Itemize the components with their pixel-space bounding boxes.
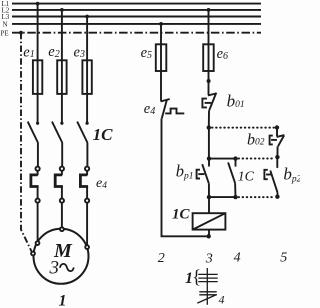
node bp2 bottom xyxy=(275,195,279,199)
fuse e6 xyxy=(203,44,214,71)
svg-text:e4: e4 xyxy=(96,176,107,191)
thermal overload e4 heater phase B xyxy=(55,171,64,203)
pushbutton b02 (NC stop, remote) xyxy=(270,128,285,158)
remote wiring dotted link bottom xyxy=(239,196,275,198)
svg-text:{: { xyxy=(192,267,201,288)
wire phase C to motor xyxy=(86,203,88,246)
thermal contact e4 (NC) xyxy=(161,99,185,118)
fuse e3 xyxy=(82,60,91,94)
contactor 1C main contact pole C xyxy=(77,122,89,171)
svg-text:e4: e4 xyxy=(144,101,155,117)
wire control branch from L2 to fuse e6 xyxy=(207,8,211,12)
wire control branch from N to fuse e5 xyxy=(159,22,163,26)
svg-text:e5: e5 xyxy=(141,45,152,61)
svg-text:e2: e2 xyxy=(48,44,59,60)
node rail top left xyxy=(207,156,211,160)
svg-text:bp1: bp1 xyxy=(176,162,194,182)
wire coil bottom xyxy=(208,230,210,237)
node rail top right xyxy=(233,156,237,160)
motor terminal B xyxy=(60,227,64,231)
wire phase A to motor xyxy=(37,203,39,242)
thermal overload e4 heater phase A xyxy=(31,171,40,203)
svg-text:b02: b02 xyxy=(247,131,265,148)
node 2-wire junction below b01 xyxy=(207,125,211,129)
wire phase B drop L2 to contact xyxy=(61,10,63,124)
wire seal-in bottom rail xyxy=(209,196,236,198)
thermal overload e4 heater phase C xyxy=(80,171,89,203)
pushbutton bp1 (NO start) xyxy=(197,159,209,198)
svg-text:3: 3 xyxy=(205,251,213,266)
svg-text:1C: 1C xyxy=(93,125,114,144)
svg-text:1: 1 xyxy=(59,293,67,308)
svg-text:e3: e3 xyxy=(74,44,85,60)
motor terminal A xyxy=(36,241,40,245)
motor sine symbol xyxy=(60,264,74,271)
svg-text:2: 2 xyxy=(158,251,165,266)
wire phase B to motor xyxy=(61,203,63,227)
cable marker 1 conductor ticks xyxy=(197,268,217,305)
node L3 tap junction xyxy=(85,15,89,19)
remote wiring dotted link middle xyxy=(239,158,275,160)
fuse e2 xyxy=(57,60,66,94)
fuse e1 xyxy=(33,60,42,94)
svg-text:3: 3 xyxy=(49,257,60,278)
fuse e5 xyxy=(156,44,167,71)
svg-text:N: N xyxy=(3,20,8,28)
wire N rail xyxy=(12,23,261,25)
wire phase A drop L1 to contact xyxy=(37,4,39,124)
motor PE terminal xyxy=(31,252,35,256)
node PE tap junction xyxy=(19,31,23,35)
svg-text:bp2: bp2 xyxy=(283,165,300,185)
svg-text:e6: e6 xyxy=(217,46,228,62)
node rail bottom left xyxy=(207,195,211,199)
wire seal-in top rail xyxy=(209,158,236,160)
pushbutton b01 (NC stop) xyxy=(202,93,216,128)
svg-text:e1: e1 xyxy=(23,44,34,60)
node b02 bottom xyxy=(275,155,279,159)
node L2 tap junction xyxy=(60,8,64,12)
wire phase C drop L3 to contact xyxy=(86,17,88,124)
node b02 top xyxy=(275,125,279,129)
motor terminal C xyxy=(85,245,89,249)
svg-text:5: 5 xyxy=(280,250,287,265)
PE earthing conductor (dash-dot) to motor frame xyxy=(21,33,32,252)
wire rail to coil 1C xyxy=(208,197,210,213)
wire L3 rail xyxy=(12,16,261,18)
node L1 tap junction xyxy=(36,2,40,6)
wire control branch down and to coil bottom xyxy=(162,118,209,236)
contactor 1C main contact pole B xyxy=(52,122,64,171)
motor M circle xyxy=(34,229,89,284)
contactor 1C auxiliary seal-in contact xyxy=(228,159,235,198)
svg-text:1C: 1C xyxy=(238,170,255,185)
wire PE rail (dash-dot) xyxy=(12,32,261,34)
remote wiring dotted link top xyxy=(212,127,274,129)
contactor 1C main contact pole A xyxy=(28,122,40,171)
wire L1 rail xyxy=(12,3,261,5)
pushbutton bp2 (NO start, remote) xyxy=(264,157,277,197)
contactor coil 1C xyxy=(193,213,226,229)
svg-text:1C: 1C xyxy=(172,207,191,223)
svg-text:4: 4 xyxy=(234,251,241,266)
node coil bottom junction xyxy=(207,234,211,238)
svg-text:4: 4 xyxy=(219,293,225,307)
svg-text:b01: b01 xyxy=(227,91,245,110)
svg-text:PE: PE xyxy=(1,29,9,37)
node below fuse e6 xyxy=(207,79,211,83)
node rail bottom right xyxy=(233,195,237,199)
wire L2 rail xyxy=(12,9,261,11)
wire b01 junction to seal-in rail xyxy=(208,128,210,159)
